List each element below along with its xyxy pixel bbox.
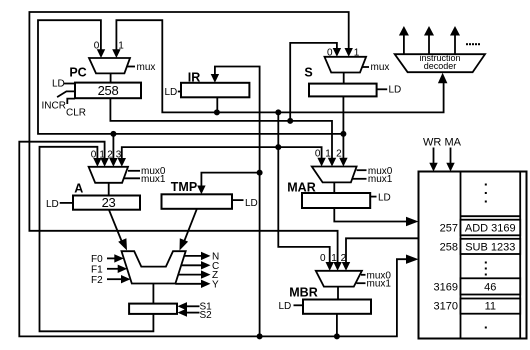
svg-text:0: 0 — [94, 41, 100, 52]
svg-text:3170: 3170 — [434, 301, 458, 313]
svg-text:S: S — [304, 66, 312, 80]
svg-text:WR: WR — [423, 137, 441, 149]
svg-text:mux1: mux1 — [368, 174, 393, 185]
svg-text:1: 1 — [325, 149, 331, 160]
svg-text:S2: S2 — [200, 310, 213, 321]
svg-text:LD: LD — [52, 79, 65, 90]
svg-text:3169: 3169 — [434, 282, 458, 294]
svg-text:ADD 3169: ADD 3169 — [465, 222, 516, 234]
svg-text:1: 1 — [99, 150, 105, 161]
svg-text:1: 1 — [331, 253, 337, 264]
svg-text:46: 46 — [484, 282, 496, 294]
svg-text:F1: F1 — [91, 265, 103, 276]
svg-text:F2: F2 — [91, 275, 103, 286]
svg-text:0: 0 — [315, 149, 321, 160]
svg-text:MBR: MBR — [289, 286, 317, 300]
svg-text:IR: IR — [188, 71, 201, 85]
svg-text:decoder: decoder — [424, 61, 457, 71]
svg-text:2: 2 — [336, 149, 342, 160]
svg-text:mux: mux — [137, 62, 156, 73]
svg-text:LD: LD — [245, 198, 258, 209]
svg-text:0: 0 — [320, 253, 326, 264]
svg-text:A: A — [74, 182, 83, 196]
svg-text:INCR: INCR — [42, 101, 66, 112]
svg-text:LD: LD — [279, 301, 292, 312]
svg-text:Y: Y — [212, 280, 219, 291]
svg-text:258: 258 — [440, 241, 458, 253]
svg-text:mux1: mux1 — [367, 279, 392, 290]
svg-text:258: 258 — [98, 83, 119, 98]
svg-text:1: 1 — [354, 48, 360, 59]
svg-text:LD: LD — [378, 192, 391, 203]
svg-text:3: 3 — [116, 150, 122, 161]
svg-text:mux1: mux1 — [141, 174, 166, 185]
svg-text:2: 2 — [341, 253, 347, 264]
svg-text:TMP: TMP — [171, 180, 197, 194]
svg-text:11: 11 — [485, 301, 496, 313]
svg-text:2: 2 — [107, 150, 113, 161]
svg-text:MA: MA — [445, 137, 462, 149]
svg-text:0: 0 — [91, 150, 97, 161]
svg-text:F0: F0 — [91, 254, 103, 265]
svg-text:LD: LD — [165, 87, 178, 98]
svg-text:257: 257 — [440, 222, 458, 234]
svg-text:1: 1 — [118, 41, 124, 52]
svg-text:MAR: MAR — [287, 181, 315, 195]
svg-text:CLR: CLR — [66, 108, 86, 119]
svg-text:LD: LD — [46, 199, 59, 210]
svg-text:mux: mux — [371, 62, 390, 73]
svg-text:23: 23 — [102, 195, 116, 210]
svg-text:0: 0 — [327, 48, 333, 59]
svg-text:SUB 1233: SUB 1233 — [465, 241, 515, 253]
svg-text:LD: LD — [389, 85, 402, 96]
svg-text:PC: PC — [69, 66, 86, 80]
